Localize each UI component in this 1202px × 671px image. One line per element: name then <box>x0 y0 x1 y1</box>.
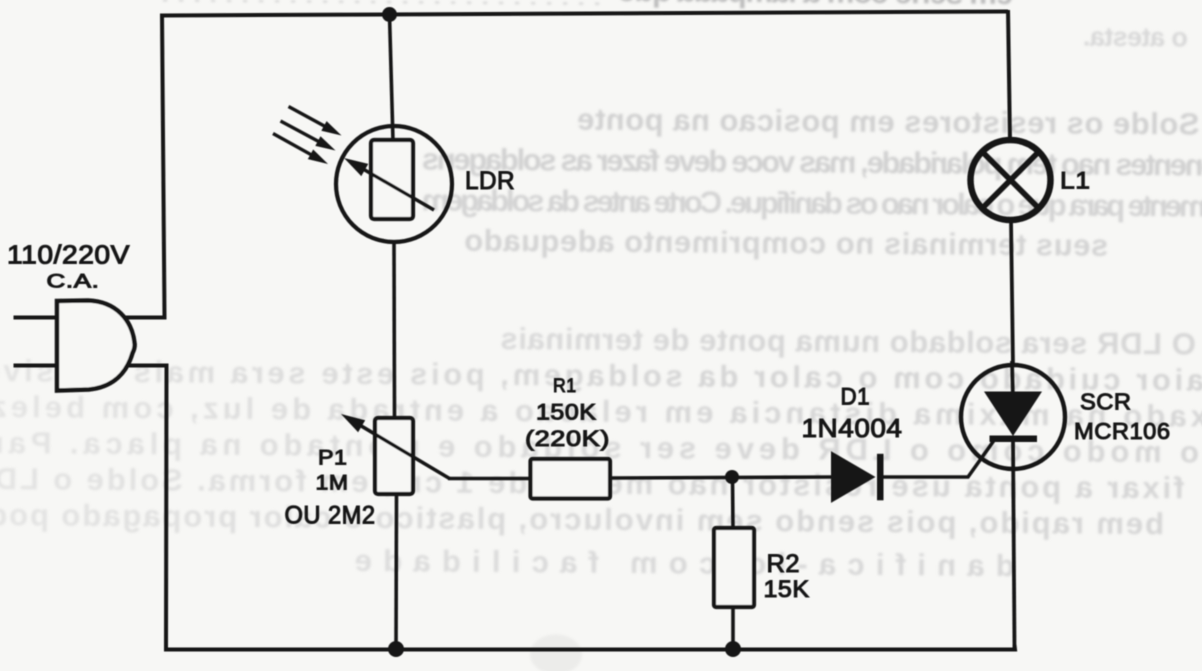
junction node bottom center <box>725 641 741 657</box>
junction node top <box>382 7 397 22</box>
diode D1 <box>832 452 884 502</box>
junction node bottom left <box>388 641 404 657</box>
AC plug prong upper <box>14 316 58 320</box>
svg-text:LDR: LDR <box>465 167 515 195</box>
resistor R2 body <box>714 528 754 607</box>
wire bottom rail <box>164 645 1015 650</box>
wire junction to R2 <box>731 477 735 529</box>
resistor R1 body <box>531 459 611 499</box>
lamp L1 circle <box>971 140 1051 220</box>
label P1 1M OU 2M2 <box>285 447 376 530</box>
potentiometer P1 body <box>375 418 413 494</box>
LDR diagonal arrow <box>344 158 434 210</box>
wire D1 to SCR gate <box>883 439 995 477</box>
svg-text:(220K): (220K) <box>525 426 610 451</box>
svg-text:c) Solde os resistores em posi: c) Solde os resistores em posicao na pon… <box>577 102 1202 142</box>
wire P1 to bottom rail <box>394 494 398 649</box>
junction node R2 top <box>725 470 739 484</box>
SCR cathode bar <box>990 436 1038 443</box>
svg-text:L1: L1 <box>1060 168 1091 195</box>
wire right rail (lamp anode) <box>1008 10 1010 141</box>
light arrow 1 <box>289 107 342 136</box>
light arrow 2 <box>281 121 336 151</box>
label SCR MCR106 <box>1074 389 1171 445</box>
svg-text:R2: R2 <box>767 550 801 578</box>
svg-text:C.A.: C.A. <box>47 271 100 293</box>
wire L1 to SCR <box>1011 220 1013 366</box>
lamp L1 cross <box>983 153 1038 208</box>
svg-text:o atesta.: o atesta. <box>1083 22 1188 53</box>
wire R1 to D1 <box>610 477 832 478</box>
svg-text:1M: 1M <box>316 472 349 495</box>
label D1 1N4004 <box>802 384 903 444</box>
label R2 15K <box>764 550 810 603</box>
svg-text:15K: 15K <box>764 576 810 603</box>
SCR circle <box>961 365 1065 469</box>
AC plug body <box>57 301 135 391</box>
LDR resistor body <box>371 140 413 219</box>
wire top rail <box>162 12 1008 18</box>
LDR circle <box>336 126 452 242</box>
svg-text:SCR: SCR <box>1080 389 1132 415</box>
SCR anode wire inside <box>1012 361 1013 400</box>
svg-text:d) O LDR sera soldado numa pon: d) O LDR sera soldado numa ponte de term… <box>500 321 1202 362</box>
AC plug prong lower <box>14 364 58 368</box>
SCR triangle <box>984 392 1042 437</box>
wire top node to LDR <box>390 15 394 141</box>
svg-text:P1: P1 <box>318 447 348 470</box>
svg-text:110/220V: 110/220V <box>7 242 130 270</box>
wire left rail lower <box>100 366 167 650</box>
wire left rail upper <box>100 14 165 318</box>
svg-text:OU 2M2: OU 2M2 <box>285 502 376 530</box>
label R1 150K (220K) <box>525 375 610 451</box>
potentiometer P1 wiper arrow <box>341 414 450 479</box>
svg-text:MCR106: MCR106 <box>1074 418 1171 444</box>
wire R2 to bottom rail <box>731 607 735 649</box>
wire LDR to P1 <box>392 242 396 419</box>
wire SCR cathode to bottom rail <box>1013 441 1015 649</box>
label 110/220V C.A. <box>7 242 130 293</box>
svg-text:R1: R1 <box>553 375 577 397</box>
wire wiper to R1 <box>448 477 531 481</box>
svg-text:1N4004: 1N4004 <box>802 413 903 443</box>
svg-text:150K: 150K <box>536 400 597 425</box>
light arrow 3 <box>273 134 328 165</box>
svg-text:D1: D1 <box>841 384 871 411</box>
